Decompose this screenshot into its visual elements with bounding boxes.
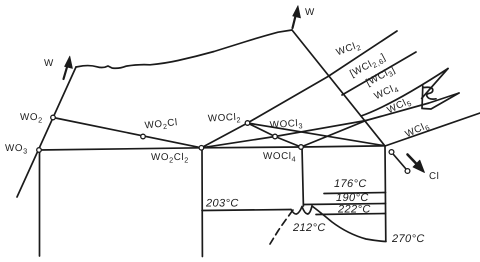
wire WOCl2 to junction B [248, 123, 386, 146]
svg-text:222°C: 222°C [337, 204, 371, 216]
wire 190C isotherm line [304, 204, 386, 205]
arrow W top-right with label [293, 12, 297, 28]
node WOCl4 [299, 145, 304, 150]
wire 203C isotherm line [202, 210, 291, 211]
wire line from WOCl4 node to S2 [301, 121, 366, 148]
arrow W upper-left with label [64, 62, 69, 79]
spike 1 return stroke [422, 69, 448, 99]
wire 176C isotherm line [324, 193, 386, 194]
svg-text:W: W [44, 58, 54, 69]
svg-text:W: W [305, 7, 315, 18]
svg-text:Cl: Cl [429, 171, 439, 182]
node WOCl3 [273, 134, 278, 139]
freehand curl between spikes [424, 87, 436, 99]
spike 2 return stroke [423, 93, 459, 109]
bracket tie line at right [421, 86, 424, 109]
svg-text:WOCl2: WOCl2 [208, 112, 242, 126]
node WO2Cl2 [199, 146, 204, 151]
wire wavy liquidus curve from W-axis corner to top corner [76, 30, 292, 68]
node WOCl2 [245, 121, 250, 126]
vertical line below junction B [384, 146, 387, 241]
wire fan line F2 ([WCl2,6] boundary) [342, 52, 416, 95]
wire WOCl2 through WOCl3 to WOCl4 node [248, 123, 302, 147]
svg-text:WO3: WO3 [5, 143, 28, 156]
svg-text:212°C: 212°C [292, 222, 326, 234]
svg-text:WCl5: WCl5 [385, 95, 413, 117]
vertical line below WO3 [39, 150, 41, 256]
wire fan line F6 WCl6 lower boundary from junction B to right edge [385, 113, 480, 146]
svg-text:190°C: 190°C [336, 192, 369, 204]
melt boundary curve to 270C [312, 206, 386, 242]
svg-text:203°C: 203°C [205, 198, 239, 210]
wire steep line from top corner down to junction B [292, 30, 385, 146]
wire W-axis line lower-left through WO3 and WO2 up to corner [17, 67, 76, 197]
svg-text:WO2: WO2 [20, 112, 43, 125]
node WO2 [51, 115, 56, 120]
wire horizontal base line WO3 to WO2Cl2 to WOCl4-node to junction B [39, 146, 385, 150]
node WO2Cl [141, 134, 146, 139]
wire fan line F3 curving up to spike apex 1 [361, 69, 448, 117]
node on Cl segment upper [389, 150, 394, 155]
wire short segment with end circles near Cl arrow [394, 155, 407, 170]
svg-text:WO2Cl: WO2Cl [144, 117, 178, 133]
wire WO2Cl2 through WOCl2 crossing steep line ending upper right (WCl2 boundary) [201, 31, 397, 148]
notch W-shape between 203 line and melt curve [291, 206, 312, 214]
svg-text:WO2Cl2: WO2Cl2 [151, 152, 189, 165]
wire 222C isotherm line [316, 214, 386, 215]
svg-text:WCl6: WCl6 [404, 120, 432, 142]
wire WO2 to WO2Cl to WO2Cl2 [53, 118, 201, 148]
wire WO2Cl2 through WOCl3 to steep line point S2 [201, 121, 366, 148]
svg-text:176°C: 176°C [334, 178, 367, 190]
dashed extension curve below 212C [270, 210, 293, 244]
vertical line below WOCl4 node [302, 147, 303, 206]
node on Cl segment lower [405, 169, 410, 174]
wire fan line F5 from S2 to spike apex 2 [366, 93, 459, 121]
node WO3 [37, 148, 42, 153]
vertical line below WO2Cl2 [201, 148, 203, 257]
svg-text:WOCl4: WOCl4 [263, 151, 296, 164]
svg-text:270°C: 270°C [391, 233, 425, 245]
arrow Cl lower right [408, 155, 419, 167]
